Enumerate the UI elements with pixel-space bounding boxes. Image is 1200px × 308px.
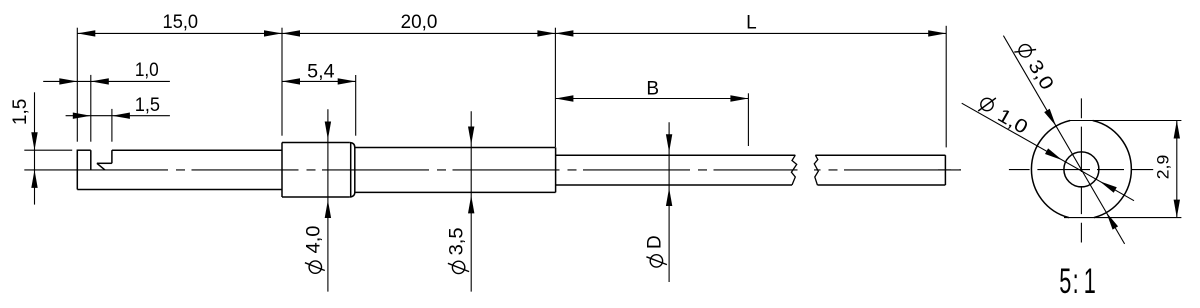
- centerline gap at break (mask): [798, 166, 815, 174]
- svg-text:3,5: 3,5: [447, 227, 468, 255]
- leader line Ø3,0: [1003, 36, 1124, 244]
- part left tube body Ø3,0: [77, 150, 282, 189]
- break line right: [814, 155, 818, 185]
- svg-text:1: 1: [1084, 263, 1096, 301]
- arrows top row: [77, 30, 946, 36]
- diameter Ø4,0 leader line: [327, 109, 329, 291]
- svg-text:1,5: 1,5: [10, 99, 31, 126]
- left vertical dimension 1,5 line: [34, 92, 36, 204]
- section outer circle Ø3,0 with flats: [1031, 121, 1131, 218]
- dimension B arrows: [555, 95, 748, 101]
- dimension 5,4 arrows: [282, 78, 356, 84]
- dimension 2,9 extension top: [1070, 120, 1181, 122]
- svg-text:L: L: [746, 12, 757, 33]
- extension line x=77: [76, 28, 78, 142]
- extension line y=150.2: [24, 149, 72, 151]
- svg-text:5,4: 5,4: [307, 62, 335, 83]
- break line left: [791, 155, 796, 185]
- svg-text:4,0: 4,0: [304, 226, 325, 254]
- extension line x=748.4: [747, 93, 749, 146]
- middle tube Ø3,5: [355, 148, 556, 193]
- section inner circle Ø1,0 bore: [1064, 152, 1099, 187]
- extension line x=946: [945, 26, 947, 148]
- collar Ø4,0: [282, 143, 355, 198]
- thin tube ØD right segment: [815, 155, 945, 185]
- diameter symbol for 4,0: [305, 261, 325, 273]
- diameter ØD leader line: [668, 122, 670, 282]
- centerline of part (with left 1,5 extension and slot floor): [24, 169, 168, 171]
- scale label 5:1: [1059, 263, 1096, 301]
- diameter Ø3,5 leader line: [470, 111, 472, 291]
- diameter Ø3,5 arrows: [468, 127, 474, 214]
- section horizontal centerline: [1009, 169, 1153, 171]
- section vertical centerline: [1080, 98, 1082, 242]
- leader Ø3,0 arrows: [1044, 109, 1118, 230]
- svg-text:1,0: 1,0: [135, 60, 159, 81]
- dimension 1,5 line: [66, 115, 170, 117]
- diameter symbol for D: [646, 255, 667, 267]
- diameter Ø4,0 arrows: [325, 122, 331, 219]
- svg-text:15,0: 15,0: [163, 12, 199, 33]
- diameter symbol for 1,0: [978, 98, 996, 111]
- centerline end segment at right: [938, 169, 961, 171]
- left vertical dimension arrows: [31, 132, 37, 188]
- svg-text:D: D: [645, 235, 666, 249]
- extension line x=90.8: [90, 75, 92, 142]
- diameter ØD arrows: [666, 134, 672, 206]
- dimension 1,0 line: [43, 80, 170, 82]
- svg-text:1,5: 1,5: [135, 95, 160, 116]
- dimension 2,9 extension bottom: [1064, 217, 1181, 219]
- svg-text:5: 5: [1059, 263, 1071, 301]
- dimension line top row: [77, 32, 946, 34]
- extension line x=282: [281, 28, 283, 136]
- extension line x=355.7: [355, 75, 357, 136]
- thin tube ØD left segment: [556, 155, 796, 185]
- dimension 2,9 line: [1176, 121, 1178, 218]
- extension line x=111.9: [111, 109, 113, 142]
- svg-text:20,0: 20,0: [401, 12, 438, 33]
- extension line x=555: [554, 28, 556, 147]
- svg-text:2,9: 2,9: [1155, 155, 1173, 180]
- dimension 5,4 line: [282, 80, 356, 82]
- dimension 1,0 arrows: [59, 78, 109, 84]
- part left tube: slot barb: [97, 150, 112, 170]
- dimension 1,5 arrows: [73, 113, 130, 119]
- part left tube: tip tab outline: [77, 150, 91, 190]
- dimension B line: [555, 98, 748, 100]
- diameter symbol for 3,5: [448, 261, 469, 273]
- leader Ø1,0 arrows: [1045, 148, 1117, 192]
- diameter symbol for 3,0: [1014, 45, 1036, 57]
- svg-text:B: B: [646, 79, 659, 100]
- dimension 2,9 arrows: [1174, 121, 1180, 218]
- leader line Ø1,0: [962, 103, 1134, 201]
- svg-text::: :: [1073, 263, 1079, 301]
